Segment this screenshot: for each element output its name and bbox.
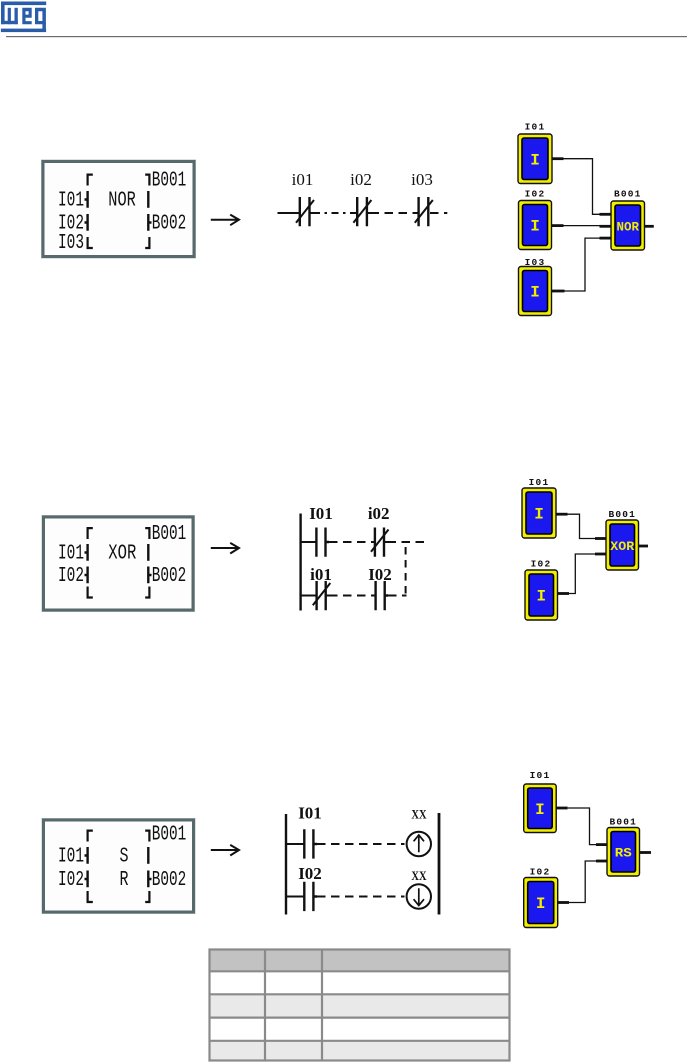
gate block NOR B001 [611, 201, 645, 250]
ladder1 wire dashes b [371, 212, 419, 214]
box2 line4 corner right [145, 587, 149, 598]
svg-text:I01: I01 [58, 542, 84, 566]
table background [210, 950, 510, 1061]
svg-text:i01: i01 [292, 170, 314, 189]
function block box RS [42, 819, 195, 914]
box3 bar right line2 [147, 847, 149, 864]
svg-text:I: I [530, 151, 540, 169]
svg-text:B001: B001 [152, 823, 187, 847]
box1 bar right line2 [147, 191, 149, 208]
box2 bar right line2 [147, 544, 149, 561]
svg-text:I01: I01 [530, 770, 551, 781]
box3 line4 corner right [145, 891, 149, 902]
ladder1 wire solid left [278, 212, 300, 214]
ladder3 reset coil [407, 884, 431, 908]
ladder2 rung2 dashes a [329, 595, 375, 597]
wire I01 to NOR input1 [552, 159, 611, 215]
table header row [210, 950, 510, 972]
svg-text:B001: B001 [152, 168, 187, 192]
ladder2 contact I01 NO [316, 528, 329, 557]
svg-text:B002: B002 [152, 868, 187, 892]
wire I02 to RS input2 [558, 861, 607, 903]
ladder3 rung1 wire left [286, 843, 304, 845]
svg-text:I03: I03 [58, 231, 84, 255]
ladder1 contact i03 NC [415, 197, 433, 226]
svg-text:I02: I02 [530, 866, 551, 877]
ladder2 rung2 dashes b [388, 595, 407, 597]
svg-text:B001: B001 [614, 188, 642, 199]
input block I01 row3 [524, 784, 557, 833]
svg-text:I02: I02 [531, 559, 552, 570]
ladder3 set coil [407, 832, 431, 856]
svg-text:I: I [535, 801, 545, 819]
svg-text:B001: B001 [609, 817, 637, 828]
box2 line4 corner left [88, 587, 93, 598]
wire I01 to RS input1 [556, 808, 607, 845]
ladder3 rung2 wire left [286, 896, 304, 898]
svg-text:B001: B001 [608, 509, 636, 520]
svg-text:I02: I02 [298, 864, 322, 883]
ladder2 OR branch dashed vertical [405, 547, 407, 596]
box1 line1 corner left [88, 175, 93, 186]
wire NOR output [645, 225, 654, 228]
svg-text:i01: i01 [310, 565, 332, 584]
box2 line1 corner right [145, 528, 149, 539]
arrow row2 [211, 543, 239, 554]
box1 line1 corner right [145, 175, 149, 186]
ladder3 right rail [438, 813, 441, 915]
input block I01 row2 [522, 488, 556, 538]
box3 line1 corner right [145, 831, 149, 842]
box2 pin tick B002 [148, 567, 151, 584]
ladder2 rung2 wire left [301, 595, 316, 597]
input block I02 row2 [525, 570, 558, 620]
wire RS output [640, 851, 652, 854]
gate block XOR B001 [606, 520, 639, 570]
WEG logo [1, 2, 46, 33]
box3 line4 corner left [88, 891, 93, 902]
svg-text:i02: i02 [368, 504, 390, 523]
box1 line4 corner right [145, 237, 149, 248]
box3 pin tick I01 [85, 847, 88, 864]
box3 pin tick I02 [85, 871, 88, 888]
wire XOR output [639, 545, 649, 548]
ladder1 contact i01 NC [296, 197, 314, 226]
svg-text:B001: B001 [152, 522, 187, 546]
box1 pin tick B002 [148, 214, 151, 231]
svg-text:R: R [120, 868, 129, 892]
ladder1 wire dashes c [430, 212, 447, 214]
svg-text:I02: I02 [368, 565, 392, 584]
arrow row1 [211, 215, 239, 226]
svg-text:I: I [530, 284, 540, 302]
input block I01 row1 [518, 134, 552, 184]
box2 pin tick I02 [85, 567, 88, 584]
svg-text:I: I [536, 588, 546, 606]
svg-text:XOR: XOR [610, 539, 634, 554]
table stripe row5 [210, 1041, 510, 1061]
input block I02 row1 [519, 201, 552, 250]
box2 pin tick I01 [85, 544, 88, 561]
function block box NOR [42, 160, 196, 258]
svg-text:S: S [120, 845, 129, 869]
input block I03 row1 [519, 267, 552, 316]
svg-text:I02: I02 [58, 564, 84, 588]
svg-text:B002: B002 [152, 212, 187, 236]
box1 pin tick I02 [85, 214, 88, 231]
svg-text:XX: XX [411, 806, 427, 821]
svg-text:XOR: XOR [108, 542, 136, 566]
wire I02 to XOR input2 [558, 554, 607, 594]
ladder1 wire dashes a [313, 212, 357, 214]
box1 line4 corner left [88, 237, 93, 248]
svg-text:I: I [530, 218, 540, 236]
svg-text:i02: i02 [350, 170, 372, 189]
ladder2 left rail [299, 514, 301, 611]
wire I01 to XOR input1 [556, 514, 606, 538]
svg-text:NOR: NOR [108, 189, 136, 213]
ladder3 contact I01 NO [304, 829, 317, 858]
svg-text:I01: I01 [309, 504, 333, 523]
input block I02 row3 [524, 878, 558, 928]
svg-text:I: I [536, 895, 546, 913]
ladder2 rung1 dashes a [329, 541, 374, 543]
ladder2 contact i02 NC [371, 528, 389, 557]
box3 pin tick B002 [148, 871, 151, 888]
svg-text:I01: I01 [58, 845, 84, 869]
ladder3 rung2 dashes [317, 896, 405, 898]
box2 line1 corner left [88, 528, 93, 539]
table grid [210, 950, 510, 1061]
svg-text:RS: RS [615, 846, 632, 861]
table stripe row3 [210, 994, 510, 1017]
svg-text:I01: I01 [525, 122, 546, 133]
svg-text:B002: B002 [152, 564, 187, 588]
ladder2 rung1 dashes b [388, 541, 426, 543]
svg-text:I: I [534, 506, 544, 524]
box1 pin tick I01 [85, 191, 88, 208]
box3 line1 corner left [88, 831, 93, 842]
wire I02 to NOR input2 [552, 224, 612, 227]
svg-text:I02: I02 [58, 868, 84, 892]
ladder3 rung1 dashes [317, 843, 405, 845]
ladder1 contact i02 NC [353, 197, 371, 226]
function block box XOR [42, 516, 195, 612]
svg-text:I01: I01 [298, 803, 322, 822]
svg-text:I01: I01 [58, 189, 84, 213]
svg-text:i03: i03 [411, 170, 433, 189]
wire I03 to NOR input3 [552, 238, 612, 291]
svg-text:I02: I02 [525, 188, 546, 199]
svg-text:NOR: NOR [617, 219, 640, 234]
svg-text:XX: XX [411, 868, 427, 883]
arrow row3 [211, 845, 239, 856]
ladder3 contact I02 NO [304, 882, 317, 911]
ladder2 contact I02 NO [376, 581, 388, 610]
ladder2 contact i01 NC [313, 581, 331, 610]
gate block RS B001 [607, 828, 640, 877]
header rule [6, 36, 687, 37]
ladder2 rung1 wire left [301, 541, 316, 543]
ladder3 left rail [285, 814, 287, 915]
svg-text:I01: I01 [529, 477, 550, 488]
